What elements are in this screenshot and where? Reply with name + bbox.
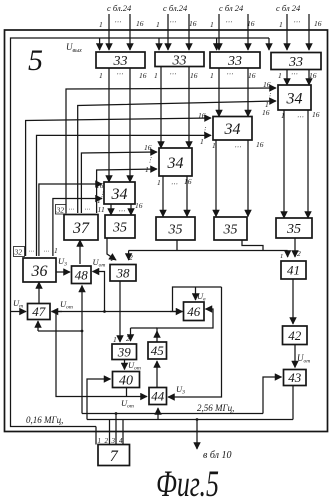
wire Uот feed from Uот line down and right into 44 left: [56, 312, 147, 397]
wire drop into 41 pin1: [287, 251, 289, 258]
svg-text:с бл 24: с бл 24: [219, 3, 244, 13]
caption Фиг.5: [156, 462, 219, 499]
svg-text:16: 16: [139, 71, 147, 80]
wire 33#4 output 1 down: [286, 70, 288, 86]
svg-text:⋯: ⋯: [169, 18, 176, 26]
svg-text:34: 34: [111, 186, 128, 203]
wire 42 output down into 43 (Uот): [294, 345, 296, 368]
svg-text:1: 1: [99, 71, 103, 80]
svg-text:с бл 24: с бл 24: [276, 3, 301, 13]
wire 7 pin4: [122, 420, 124, 445]
svg-text:16: 16: [314, 19, 322, 28]
wire 41 output down into 42: [292, 279, 294, 324]
wire riser from line B into 44 bottom: [157, 408, 159, 420]
svg-text:39: 39: [117, 344, 132, 359]
block 35 (#2): [156, 217, 195, 240]
svg-text:1: 1: [156, 20, 160, 29]
svg-text:⋯: ⋯: [169, 70, 176, 78]
wire 7 pin3 to 2.56 line: [115, 414, 117, 445]
block 37: [64, 215, 98, 241]
wire 2.56MHz feed to 47.bottom and 48.bottom: [37, 321, 39, 331]
wire 38 output down into 39 pin1: [119, 281, 121, 342]
block 35 (#4): [276, 218, 312, 238]
svg-text:1: 1: [200, 137, 204, 146]
svg-text:35: 35: [286, 222, 301, 237]
wire 35#3 output down to bus: [242, 240, 263, 251]
block 33 (#1): [96, 52, 145, 69]
wire input 1 into 33d: [286, 14, 288, 50]
svg-text:2,56 МГц,: 2,56 МГц,: [197, 403, 234, 413]
wire bus H3: corner(25.6,120.5) to 34b pin16, vertical down to 36: [26, 118, 211, 256]
wire riser from line B into 40 left: [87, 379, 111, 420]
wire riser down to 2.56 line: [81, 331, 83, 414]
svg-text:32: 32: [14, 248, 23, 257]
svg-text:0,16 МГц,: 0,16 МГц,: [26, 415, 63, 425]
svg-text:45: 45: [151, 343, 165, 358]
block 47: [28, 304, 51, 320]
svg-text:2: 2: [129, 253, 133, 262]
junction 7.pin3 on 2.56 line: [115, 412, 118, 415]
wire 43 output down to line B: [292, 386, 294, 420]
svg-text:35: 35: [168, 223, 183, 238]
svg-text:⋯: ⋯: [43, 249, 49, 255]
wire branch into 33d top: [268, 38, 270, 50]
svg-text:33: 33: [227, 54, 242, 69]
wire branch into 33c top: [216, 38, 218, 50]
block 33 (#3): [210, 52, 260, 69]
svg-text:⋮: ⋮: [147, 156, 154, 164]
svg-text:16: 16: [96, 181, 104, 190]
svg-text:37: 37: [72, 220, 90, 237]
wire 45 output up, right, up into 46.right: [157, 309, 213, 342]
wire Uот line from 47.right to 46.left: [52, 311, 183, 313]
wire 39 to 40 (Uот): [124, 360, 126, 370]
svg-text:16: 16: [248, 71, 256, 80]
block 34 (#1 right): [278, 85, 311, 110]
block 45: [148, 342, 167, 359]
svg-text:1: 1: [98, 205, 102, 214]
wire 34a output 1 down: [283, 110, 285, 218]
wire 33#3 output 16 down: [247, 68, 249, 117]
svg-text:⋯: ⋯: [297, 113, 304, 121]
svg-text:⋮: ⋮: [99, 191, 106, 199]
wire 33#2 output 16 down: [188, 67, 190, 149]
svg-text:7: 7: [110, 448, 119, 465]
wire 48 top to 37 bottom: [79, 240, 81, 264]
svg-text:16: 16: [263, 80, 271, 89]
wire input 16 into 33b: [188, 14, 190, 50]
svg-text:16: 16: [184, 177, 192, 186]
svg-text:1: 1: [157, 178, 161, 187]
svg-text:1: 1: [54, 246, 58, 255]
svg-text:40: 40: [119, 374, 133, 389]
wire Uот riser x=104.5 from Uот line up, stub into 48 right: [93, 272, 105, 312]
block 34 (#3): [159, 148, 192, 176]
svg-text:32: 32: [56, 206, 65, 215]
wire 0.16 MHz loop: bottom from pin1 of block 7, left side, top feed to 33 blocks: [11, 38, 270, 427]
wire 35#2 output down to bus: [176, 240, 178, 251]
block 46: [184, 302, 205, 321]
wire bus H4: corner(36.5,135.4) to 34b pin1, vertical down to 36: [37, 135, 212, 256]
svg-text:⋯: ⋯: [234, 143, 241, 151]
svg-text:с бл.24: с бл.24: [163, 3, 188, 13]
svg-text:35: 35: [223, 223, 238, 238]
svg-text:16: 16: [256, 140, 264, 149]
svg-text:34: 34: [224, 121, 241, 138]
svg-text:42: 42: [288, 328, 302, 343]
wire 35#1 output to 38 pin 1: [107, 238, 116, 260]
wire top line feeding 46.top(Uв) and 44.right: [173, 287, 222, 312]
junction: [103, 310, 106, 313]
wire 7 pin2 to line B: [109, 420, 111, 445]
wire input 1 into 33b: [167, 14, 169, 50]
svg-text:1: 1: [110, 254, 114, 263]
svg-text:в бл 10: в бл 10: [203, 450, 231, 461]
wire 33#3 output 1 down: [218, 68, 220, 117]
junction to output "в бл 10": [196, 418, 199, 421]
block 7 (reference oscillator, outside frame): [98, 445, 130, 466]
wire riser from 2.56 line into 43 left: [263, 377, 282, 414]
svg-text:1: 1: [212, 141, 216, 150]
wire 35#4 output down into 41 pin2: [294, 238, 296, 257]
svg-text:⋯: ⋯: [171, 180, 178, 188]
svg-text:16: 16: [136, 19, 144, 28]
wire output to block 10: [196, 420, 198, 450]
svg-text:34: 34: [167, 155, 184, 172]
svg-text:34: 34: [286, 90, 303, 107]
svg-text:Фиг.5: Фиг.5: [156, 462, 219, 499]
block 38: [110, 265, 136, 282]
svg-text:44: 44: [151, 389, 165, 404]
wire bus H8: corner(52.9,198.5) to 34d pin1, vertical down to 36: [53, 199, 102, 257]
svg-text:⋮: ⋮: [266, 92, 273, 100]
wire from top line down into 44 right: [168, 287, 222, 397]
svg-text:3: 3: [111, 437, 116, 445]
block 34 (#4 left): [104, 182, 135, 204]
svg-text:16: 16: [190, 71, 198, 80]
wire bus H6: corner(96.6,170) to 34c pin1, vertical down to 37: [97, 169, 157, 213]
svg-text:⋯: ⋯: [291, 70, 298, 78]
wire input 16 into 33a: [129, 14, 131, 50]
wire 34c output 16 down: [186, 176, 188, 217]
svg-text:16: 16: [309, 71, 317, 80]
wire branch of 328-line down into 39 pin2: [130, 328, 132, 341]
frame of block 5: [5, 30, 328, 432]
svg-text:16: 16: [135, 201, 143, 210]
wire 44 top to 45 bottom: [156, 361, 158, 388]
svg-text:5: 5: [28, 44, 43, 77]
block 35 (#1): [105, 215, 135, 238]
block 44: [149, 388, 167, 405]
block 48: [72, 266, 92, 284]
svg-text:33: 33: [113, 54, 128, 69]
svg-text:1: 1: [154, 71, 158, 80]
svg-text:⋯: ⋯: [293, 18, 300, 26]
svg-text:47: 47: [32, 304, 46, 319]
svg-text:16: 16: [262, 108, 270, 117]
wire riser into 48 bottom: [81, 286, 83, 332]
svg-text:1: 1: [279, 20, 283, 29]
svg-text:⋯: ⋯: [118, 207, 125, 215]
svg-text:38: 38: [116, 265, 131, 280]
svg-text:35: 35: [112, 221, 127, 236]
svg-text:⋯: ⋯: [226, 70, 233, 78]
wire 47 top to 36 bottom: [38, 282, 40, 304]
svg-text:2: 2: [126, 334, 130, 343]
wire Ut from loop into 47 left: [11, 311, 27, 313]
wire bus under 35#2,#3 to 41 pin1 and 38 pin2: [129, 250, 288, 252]
svg-text:48: 48: [75, 267, 89, 282]
block 41: [281, 261, 306, 279]
svg-text:41: 41: [287, 263, 300, 278]
svg-text:33: 33: [172, 53, 187, 68]
svg-text:16: 16: [189, 19, 197, 28]
wire 34a output 16 down: [307, 110, 309, 218]
wire input 16 into 33d: [308, 14, 310, 50]
wire 34c output 1 down: [162, 176, 164, 217]
svg-text:1: 1: [210, 71, 214, 80]
svg-text:1: 1: [98, 437, 102, 445]
svg-text:16: 16: [198, 111, 206, 120]
svg-text:⋯: ⋯: [28, 249, 34, 255]
wire bus H7: corner(38.9,184) to 34d pin16, vertical down to 36: [39, 184, 102, 256]
svg-text:с бл.24: с бл.24: [107, 3, 132, 13]
wire 34b output 16 down: [247, 140, 249, 217]
svg-text:1: 1: [280, 253, 283, 260]
svg-text:⋯: ⋯: [68, 207, 74, 213]
block 40: [113, 372, 140, 389]
svg-text:1: 1: [113, 335, 117, 344]
svg-text:46: 46: [187, 304, 201, 319]
svg-text:1: 1: [101, 205, 105, 214]
wire input 1 into 33a: [108, 14, 110, 50]
block 33 (#4): [271, 53, 321, 71]
svg-text:2: 2: [297, 249, 301, 258]
svg-text:1: 1: [145, 165, 149, 174]
block 36: [23, 258, 56, 282]
wire input 16 into 33c: [247, 14, 249, 50]
wire 40 output down joining 44-left line: [126, 388, 128, 397]
wire 34b output 1 down: [215, 140, 217, 217]
svg-text:33: 33: [288, 55, 303, 70]
svg-text:2: 2: [105, 437, 109, 445]
wire bus H2: corner(77.7,105.5) to 34a pin1, vertical down to 37: [78, 101, 276, 213]
wire 2.56 MHz line A: [82, 413, 263, 415]
wire 33#1 output 1 down: [108, 68, 110, 182]
svg-text:16: 16: [312, 110, 320, 119]
block 33 (#2): [155, 52, 204, 68]
svg-text:43: 43: [288, 370, 302, 385]
wire 33#2 output 1 down: [160, 67, 162, 149]
wire 33#1 output 16 down: [129, 68, 131, 182]
svg-text:⋮: ⋮: [201, 126, 208, 134]
svg-text:⋯: ⋯: [116, 70, 123, 78]
wire input 1 into 33c: [218, 14, 220, 50]
wire 33#4 output 16 down: [308, 70, 310, 86]
wire bus H1: corner(66,89) to 34a pin16, vertical down to 37: [66, 88, 276, 213]
wire branch into 33a top: [99, 38, 101, 50]
block 43: [284, 370, 307, 386]
block 39: [112, 344, 137, 360]
wire drop into 38 pin2: [128, 251, 130, 261]
wire branch into 33b top: [158, 38, 160, 50]
svg-text:1: 1: [210, 20, 214, 29]
block 42: [283, 326, 308, 345]
wire 34d output 1 down: [110, 204, 112, 215]
wire line B: from riser x=87 right to 43.out leg: [87, 419, 293, 421]
svg-text:16: 16: [144, 143, 152, 152]
svg-text:⋯: ⋯: [225, 18, 232, 26]
wire U3 from 36 to 48 left: [56, 271, 70, 273]
block 34 (#2): [213, 117, 252, 141]
svg-text:⋯: ⋯: [114, 18, 121, 26]
svg-text:⋯: ⋯: [84, 207, 90, 213]
svg-text:36: 36: [31, 263, 48, 280]
wire bus H5: corner(81.4,153) to 34c pin16, vertical down to 37: [81, 152, 157, 213]
junction at 48 riser: [81, 330, 84, 333]
wire 34d output 16 down: [130, 204, 132, 215]
wire arrow Uв into 46 top: [195, 287, 197, 300]
svg-text:1: 1: [278, 71, 282, 80]
wire 7 pin1 to 0.16 loop: [95, 427, 97, 445]
block 35 (#3): [214, 217, 247, 240]
svg-text:1: 1: [99, 20, 103, 29]
